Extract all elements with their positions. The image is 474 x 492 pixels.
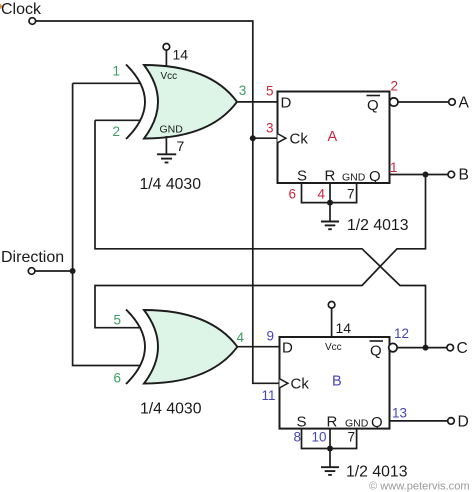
terminal Direction (28, 268, 35, 275)
svg-text:13: 13 (392, 406, 407, 421)
wire U1 input 2 (95, 119, 141, 121)
svg-text:D: D (282, 340, 293, 357)
wire Qbar to terminal A (398, 101, 449, 103)
bubble Qbar U3 (389, 343, 397, 351)
pin 14 Vcc terminal of U1 (163, 44, 170, 67)
svg-text:1: 1 (113, 64, 121, 79)
ground symbol U2 (321, 203, 339, 230)
svg-text:14: 14 (173, 47, 189, 63)
svg-text:Ck: Ck (290, 131, 309, 148)
svg-text:3: 3 (266, 121, 274, 136)
xor-gate U4 body (126, 310, 237, 385)
svg-text:Ck: Ck (291, 376, 310, 393)
pin 14 Vcc terminal of U3 (328, 302, 335, 338)
svg-text:4: 4 (318, 187, 326, 202)
wire net C: U1 input2 through crossover to FFB Qbar node (95, 120, 426, 347)
svg-text:A: A (459, 95, 470, 112)
junction node B (423, 172, 429, 178)
svg-text:7: 7 (348, 429, 356, 444)
wire U4 output to D of flip-flop B (237, 346, 279, 348)
svg-text:GND: GND (342, 172, 366, 184)
pin Qbar label U2 (367, 96, 381, 115)
terminal A (449, 99, 456, 106)
svg-text:10: 10 (312, 430, 327, 445)
wire Q of U3 to terminal D (390, 420, 448, 422)
wire Q of U2 to terminal B (390, 174, 448, 176)
junction ground bus U3 (327, 446, 333, 452)
wire U1 input 1 (73, 82, 141, 84)
svg-text:Q: Q (370, 343, 382, 360)
svg-text:A: A (328, 129, 338, 145)
wire Clock tap to Ck of U2 (flip-flop A) (253, 137, 278, 139)
svg-text:7: 7 (177, 138, 185, 154)
wire S pin U2 to ground bus (302, 183, 357, 203)
svg-text:5: 5 (114, 312, 122, 327)
svg-text:2: 2 (391, 79, 399, 94)
svg-text:D: D (458, 414, 469, 431)
pin Ck triangle U3 (280, 379, 288, 388)
decorative orange sliver (cropped bullet) (0, 4, 3, 10)
ground symbol U3 (321, 449, 339, 475)
svg-text:GND: GND (345, 418, 369, 430)
svg-text:12: 12 (394, 326, 409, 341)
svg-text:C: C (457, 340, 468, 357)
svg-text:9: 9 (267, 329, 275, 344)
svg-text:8: 8 (294, 429, 302, 444)
svg-text:1/2 4013: 1/2 4013 (347, 217, 409, 234)
svg-text:1: 1 (390, 160, 398, 175)
svg-text:GND: GND (160, 124, 184, 136)
pin 7 wire of U1 (165, 136, 167, 154)
flip-flop U2 (A) box (278, 92, 390, 184)
svg-text:Q: Q (371, 414, 383, 431)
svg-text:3: 3 (239, 83, 247, 98)
junction Direction (70, 268, 76, 274)
svg-text:6: 6 (289, 187, 297, 202)
svg-text:S: S (297, 168, 307, 185)
wire R pin U3 to ground bus (329, 429, 331, 449)
svg-text:1/2 4013: 1/2 4013 (346, 464, 408, 481)
terminal D (448, 418, 455, 425)
svg-text:B: B (332, 374, 342, 390)
svg-text:1/4 4030: 1/4 4030 (140, 401, 202, 418)
svg-text:Vcc: Vcc (325, 342, 342, 353)
svg-text:Direction: Direction (1, 249, 64, 266)
svg-text:R: R (327, 414, 338, 431)
svg-text:S: S (297, 414, 307, 431)
svg-text:5: 5 (266, 83, 274, 98)
svg-text:6: 6 (114, 371, 122, 386)
svg-text:© www.petervis.com: © www.petervis.com (369, 481, 470, 492)
pin Ck triangle U2 (278, 134, 286, 143)
terminal Clock (29, 18, 36, 25)
junction clock/CkA (250, 135, 256, 141)
bubble Qbar U2 (390, 98, 398, 106)
terminal C (447, 344, 454, 351)
flip-flop U3 (B) box (280, 337, 390, 429)
svg-text:1/4 4030: 1/4 4030 (140, 176, 202, 193)
junction node C (423, 345, 429, 351)
svg-text:14: 14 (336, 320, 352, 336)
wire Direction net: XOR U1 input1 down to XOR U4 input6 (73, 83, 141, 365)
svg-text:D: D (281, 95, 292, 112)
svg-text:7: 7 (347, 187, 355, 202)
ground symbol U1 (157, 154, 176, 162)
pin Qbar label U3 (370, 341, 384, 360)
svg-text:Q: Q (369, 168, 381, 185)
svg-text:Q: Q (367, 97, 379, 114)
svg-text:B: B (459, 167, 469, 184)
svg-text:Clock: Clock (1, 1, 42, 18)
wire net B: FFA Q node through crossover to U4 input5 (95, 175, 426, 328)
wire Clock: terminal to Ck of U3 (flip-flop B) (36, 21, 280, 383)
wire U1 output to D of flip-flop A (237, 101, 278, 103)
wire S pin U3 to ground bus (302, 429, 357, 449)
svg-text:2: 2 (113, 124, 121, 139)
junction ground bus U2 (327, 200, 333, 206)
xor-gate U1 body (126, 65, 237, 140)
svg-text:4: 4 (237, 330, 245, 345)
svg-text:R: R (325, 168, 336, 185)
wire Direction to junction (35, 270, 73, 272)
svg-text:11: 11 (262, 388, 276, 403)
terminal B (448, 171, 455, 178)
svg-text:Vcc: Vcc (161, 71, 178, 82)
wire R pin U2 to ground bus (329, 183, 331, 203)
wire Qbar U3 to terminal C (397, 347, 447, 349)
